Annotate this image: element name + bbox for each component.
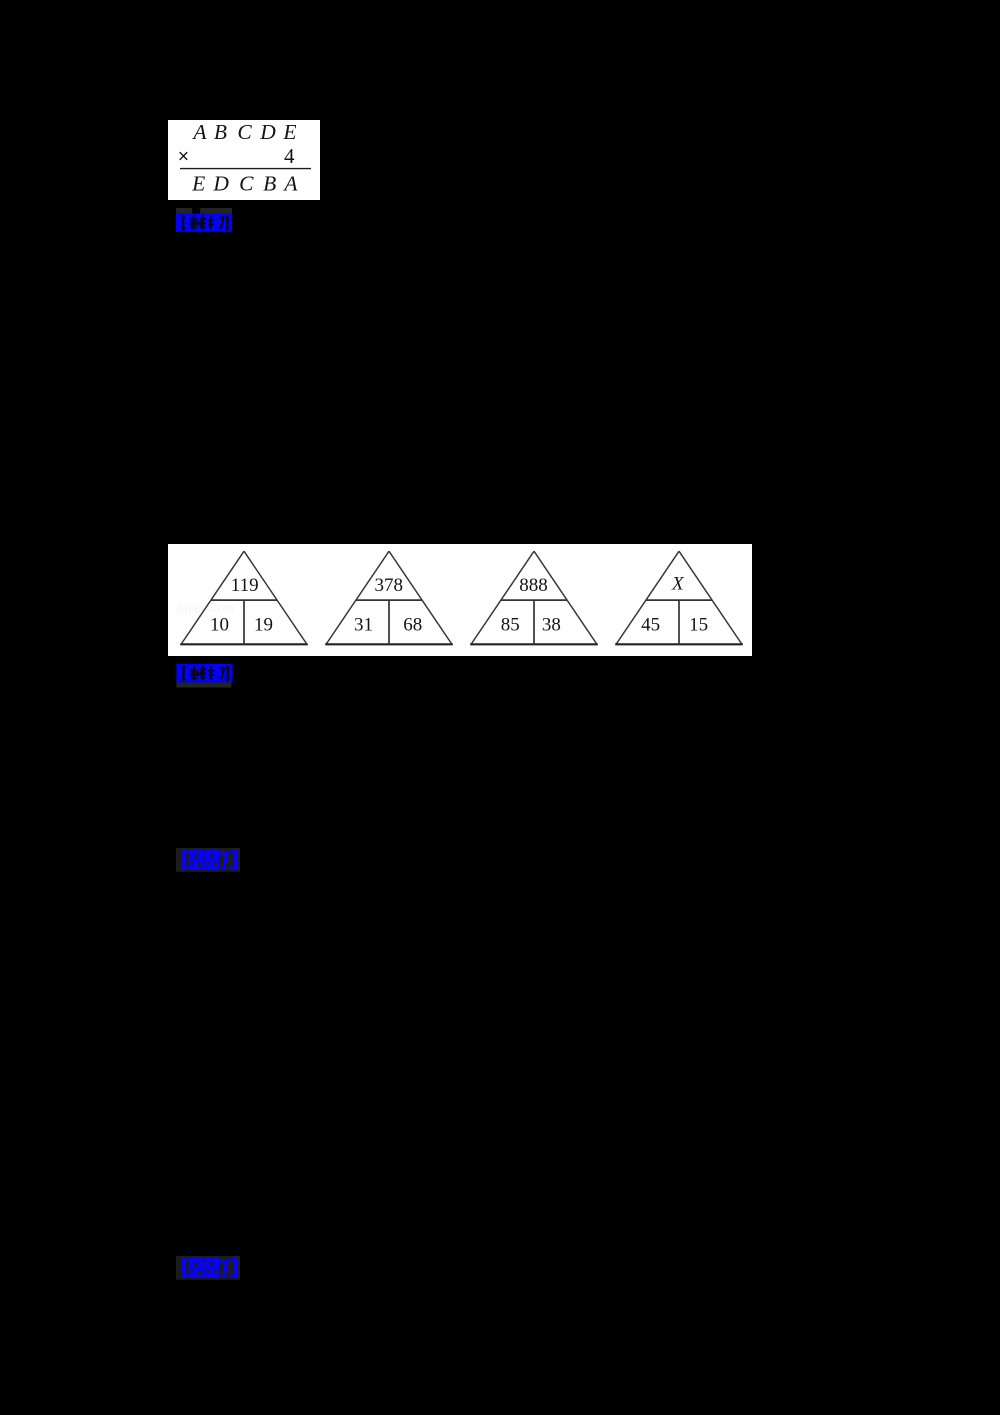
- svg-text:A: A: [282, 171, 298, 195]
- multiplication cryptarithm box ABCDE x 4 = EDCBA: [168, 120, 320, 200]
- svg-text:31: 31: [354, 614, 373, 635]
- svg-text:E: E: [191, 171, 205, 195]
- svg-text:B: B: [214, 120, 227, 144]
- svg-text:45: 45: [641, 614, 660, 635]
- svg-text:B: B: [263, 171, 276, 195]
- sum rule line: [180, 168, 311, 170]
- svg-text:E: E: [282, 120, 296, 144]
- svg-text:4: 4: [284, 144, 295, 168]
- answer label 3 (blue CJK glyphs on dark strip): [176, 848, 240, 872]
- svg-text:68: 68: [403, 614, 422, 635]
- svg-text:10: 10: [210, 614, 229, 635]
- svg-text:×: ×: [178, 147, 189, 168]
- svg-text:119: 119: [231, 575, 259, 596]
- svg-text:38: 38: [542, 614, 561, 635]
- svg-text:C: C: [239, 171, 254, 195]
- triangle template reused 4 times: [180, 551, 743, 644]
- svg-text:A: A: [191, 120, 207, 144]
- svg-text:85: 85: [501, 614, 520, 635]
- svg-text:888: 888: [519, 575, 548, 596]
- svg-text:15: 15: [689, 614, 708, 635]
- triangle 2: [325, 551, 453, 644]
- svg-text:19: 19: [254, 614, 273, 635]
- triangle 1: [180, 551, 308, 644]
- svg-text:378: 378: [375, 575, 404, 596]
- svg-text:X: X: [671, 574, 685, 595]
- answer label 1 (blue highlight, black CJK glyphs): [176, 207, 232, 232]
- answer label 4 (blue CJK glyphs on dark strip): [176, 1256, 240, 1280]
- triangles puzzle box: [168, 544, 752, 656]
- answer label 2 (blue highlight, black CJK glyphs): [176, 662, 233, 688]
- svg-text:C: C: [237, 120, 252, 144]
- triangle 3: [470, 551, 598, 644]
- svg-text:D: D: [212, 171, 229, 195]
- triangle 4: [615, 551, 743, 644]
- svg-text:D: D: [259, 120, 276, 144]
